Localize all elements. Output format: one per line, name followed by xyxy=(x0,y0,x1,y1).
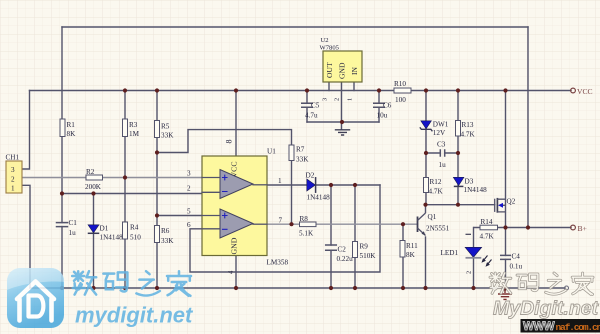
wire Q1 collector lead xyxy=(425,205,427,213)
svg-text:DW1: DW1 xyxy=(433,121,449,129)
svg-text:R6: R6 xyxy=(161,227,170,235)
terminal B+ xyxy=(571,224,587,233)
resistor R8 xyxy=(299,215,316,238)
wire op-amp pin1 output with D2 xyxy=(267,184,380,186)
svg-text:2: 2 xyxy=(11,176,15,184)
svg-text:33K: 33K xyxy=(161,237,174,245)
svg-text:GND: GND xyxy=(230,237,239,254)
svg-text:8K: 8K xyxy=(406,251,416,259)
pin number 2 rotated W7805 xyxy=(334,98,341,101)
svg-text:1: 1 xyxy=(278,177,282,185)
svg-text:C4: C4 xyxy=(512,253,521,261)
capacitor C1 xyxy=(57,219,78,237)
wire C3 links xyxy=(426,152,458,154)
svg-text:WWW: WWW xyxy=(523,321,555,333)
wire DW1 column xyxy=(425,91,427,154)
svg-text:10u: 10u xyxy=(377,112,388,120)
svg-text:2N5551: 2N5551 xyxy=(426,225,450,233)
pin number 3 rotated W7805 xyxy=(322,98,329,101)
pin number 1 rotated W7805 xyxy=(347,98,354,101)
junction dots B+ net xyxy=(503,225,530,229)
svg-text:U2: U2 xyxy=(321,37,329,44)
junction dots C3 net xyxy=(424,151,460,155)
wire top rail xyxy=(62,26,528,28)
wire LED1 column xyxy=(473,228,475,289)
svg-text:4.7K: 4.7K xyxy=(461,131,476,139)
wire R5 R6 column xyxy=(156,91,158,289)
pin number 2 xyxy=(187,185,191,193)
wire battery drop from top rail to B+ xyxy=(527,27,529,228)
svg-text:1: 1 xyxy=(347,98,354,101)
svg-text:R12: R12 xyxy=(430,178,442,186)
pin number 1 xyxy=(278,177,282,185)
ground symbol bottom right xyxy=(498,289,512,300)
resistor R7 xyxy=(289,145,309,164)
svg-text:1N4148: 1N4148 xyxy=(100,234,124,242)
svg-text:C6: C6 xyxy=(383,102,392,110)
op-amp U1 LM358 body xyxy=(202,148,288,267)
svg-text:1u: 1u xyxy=(439,161,447,169)
svg-text:R11: R11 xyxy=(406,242,418,250)
wire C2 column xyxy=(330,185,332,288)
wire VCC rail xyxy=(30,90,572,92)
svg-text:8K: 8K xyxy=(67,130,77,138)
svg-text:GND: GND xyxy=(338,62,347,79)
junction dot R2 node xyxy=(123,175,127,179)
wire C1 lower lead to ground rail xyxy=(61,227,63,288)
wire CH1 pin1 to ground rail xyxy=(22,185,30,288)
capacitor C6 xyxy=(373,102,392,120)
wire R9 column xyxy=(354,185,356,288)
svg-text:D2: D2 xyxy=(306,172,315,180)
svg-text:3: 3 xyxy=(11,166,15,174)
svg-text:2: 2 xyxy=(334,98,341,101)
svg-text:0.22u: 0.22u xyxy=(337,255,354,263)
diode D1 1N4148 xyxy=(88,225,123,242)
svg-text:OUT: OUT xyxy=(325,62,334,78)
resistor R5 xyxy=(155,121,175,140)
svg-text:1M: 1M xyxy=(129,130,140,138)
wire C6 column xyxy=(378,91,380,123)
svg-text:R8: R8 xyxy=(300,215,309,223)
svg-text:3: 3 xyxy=(322,98,329,101)
svg-text:3: 3 xyxy=(187,170,191,178)
svg-text:200K: 200K xyxy=(85,183,102,191)
wire D3 column xyxy=(457,153,459,205)
capacitor C5 xyxy=(301,102,320,120)
junction dots pin2 net xyxy=(60,191,96,195)
svg-text:1N4148: 1N4148 xyxy=(307,194,331,202)
junction dots R5 R6 taps xyxy=(155,150,159,217)
wire C4 column xyxy=(505,228,507,289)
svg-text:2: 2 xyxy=(466,271,473,274)
wire ground rail xyxy=(30,287,565,289)
svg-text:W7805: W7805 xyxy=(320,45,340,52)
wire node A to op-amp pin2 xyxy=(62,193,202,195)
svg-text:5.1K: 5.1K xyxy=(299,230,314,238)
junction dots VCC rail xyxy=(123,88,508,92)
svg-text:5: 5 xyxy=(187,208,191,216)
watermark logo mydigit house xyxy=(7,268,64,328)
svg-text:naf.com.cn: naf.com.cn xyxy=(556,322,600,333)
pin number 8 rotated xyxy=(225,140,234,144)
pin number 3 xyxy=(187,170,191,178)
svg-text:IN: IN xyxy=(350,66,359,75)
watermark text mydigit.net blue xyxy=(75,303,194,328)
capacitor C2 xyxy=(326,245,353,263)
resistor R1 xyxy=(60,119,76,138)
svg-text:D3: D3 xyxy=(465,178,474,186)
svg-text:33K: 33K xyxy=(296,156,309,164)
svg-text:Q1: Q1 xyxy=(428,213,437,221)
wire R11 column xyxy=(402,224,404,288)
svg-text:D1: D1 xyxy=(100,225,109,233)
wire B+ line xyxy=(474,227,571,229)
mosfet Q2 xyxy=(495,198,516,213)
op-amp A section triangle xyxy=(202,170,267,199)
svg-text:1: 1 xyxy=(11,185,15,193)
pin number 6 xyxy=(187,221,191,229)
transistor Q1 2N5551 xyxy=(418,213,450,236)
wire left drop to CH1 pin3 xyxy=(22,91,30,170)
wire D1 column xyxy=(93,194,95,289)
junction dot pin7 net xyxy=(289,222,293,226)
svg-text:100: 100 xyxy=(395,96,406,104)
wire R5 tap to R7 top xyxy=(157,130,292,153)
wire C5 column xyxy=(306,91,308,123)
connector CH1 xyxy=(6,153,23,193)
pin number 4 rotated xyxy=(228,270,235,274)
svg-text:C3: C3 xyxy=(437,141,446,149)
wire W7805 pin 2 ground lead xyxy=(341,82,343,130)
resistor R3 xyxy=(123,119,140,138)
svg-text:1N4148: 1N4148 xyxy=(464,186,488,194)
svg-text:4.7K: 4.7K xyxy=(429,188,444,196)
capacitor C4 xyxy=(500,253,522,271)
pin number 7 xyxy=(279,217,283,225)
svg-text:510: 510 xyxy=(130,234,141,242)
resistor R12 xyxy=(424,178,444,196)
svg-text:R7: R7 xyxy=(296,146,305,154)
svg-text:Q2: Q2 xyxy=(507,198,516,206)
svg-text:R5: R5 xyxy=(161,123,170,131)
svg-text:R1: R1 xyxy=(67,121,76,129)
resistor R4 xyxy=(123,222,142,242)
wire R1 column from top rail down to node A xyxy=(61,27,63,223)
svg-text:R3: R3 xyxy=(129,121,138,129)
junction dot C5 ground xyxy=(340,120,344,124)
resistor R9 xyxy=(353,242,377,261)
svg-text:4.7K: 4.7K xyxy=(480,233,495,241)
svg-text:R9: R9 xyxy=(360,243,369,251)
wire R4 column xyxy=(124,178,126,289)
svg-text:VCC: VCC xyxy=(577,87,593,96)
svg-text:0.1u: 0.1u xyxy=(510,263,523,271)
svg-text:C2: C2 xyxy=(338,246,347,254)
svg-text:mydigit.net: mydigit.net xyxy=(75,303,194,328)
pin number 5 xyxy=(187,208,191,216)
svg-text:C5: C5 xyxy=(311,102,320,110)
resistor R6 xyxy=(155,226,175,246)
op-amp B section triangle xyxy=(202,209,267,238)
svg-text:1u: 1u xyxy=(69,229,77,237)
resistor R11 xyxy=(400,241,418,260)
svg-text:R2: R2 xyxy=(86,168,95,176)
capacitor C3 xyxy=(437,141,446,170)
svg-text:R14: R14 xyxy=(481,218,493,226)
resistor R13 xyxy=(456,121,476,139)
wire R6 tap to op-amp pin5 xyxy=(157,215,202,217)
junction dot Q1 base xyxy=(401,222,405,226)
zener diode DW1 12V xyxy=(420,121,449,138)
wire R13 column xyxy=(457,91,459,154)
led LED1 xyxy=(441,247,492,274)
wire R12 column xyxy=(425,153,427,205)
minus mark near LED1 xyxy=(466,233,472,235)
svg-text:R10: R10 xyxy=(394,80,406,88)
svg-text:R13: R13 xyxy=(462,121,474,129)
svg-text:MyDigit.net: MyDigit.net xyxy=(493,298,600,320)
junction dots gate net xyxy=(423,203,460,207)
svg-text:R4: R4 xyxy=(130,224,139,232)
svg-text:6: 6 xyxy=(187,221,191,229)
watermark text shuma zhijia outlined xyxy=(490,273,593,294)
wire W7805 pin 1 lead xyxy=(353,82,355,91)
svg-text:CH1: CH1 xyxy=(6,153,20,161)
svg-text:LM358: LM358 xyxy=(267,259,289,267)
wire W7805 pin 3 lead xyxy=(328,82,330,91)
svg-text:LED1: LED1 xyxy=(441,249,459,257)
terminal VCC xyxy=(571,87,593,96)
wire C5 C6 ground link xyxy=(307,121,379,123)
watermark text MyDigit.net outlined xyxy=(493,298,600,320)
svg-text:7: 7 xyxy=(279,217,283,225)
wire op-amp pin6 feedback loop xyxy=(190,185,380,272)
watermark banner www.naf.com.cn xyxy=(521,319,600,333)
wire R7 column down to pin7 net xyxy=(291,145,293,224)
wire op-amp pin8 supply xyxy=(235,91,237,157)
wire R3 column xyxy=(124,91,126,178)
svg-text:8: 8 xyxy=(225,140,234,144)
wire op-amp pin4 to ground rail xyxy=(235,256,237,289)
resistor R2 xyxy=(85,168,103,191)
wire Q1 emitter to ground rail xyxy=(425,237,427,288)
svg-text:12V: 12V xyxy=(433,129,446,137)
svg-text:B+: B+ xyxy=(578,224,587,233)
svg-text:2: 2 xyxy=(187,185,191,193)
svg-text:33K: 33K xyxy=(161,132,174,140)
wire op-amp pin7 to Q1 base through R8 xyxy=(267,223,418,225)
diode D2 1N4148 xyxy=(306,172,331,202)
svg-text:U1: U1 xyxy=(267,148,276,156)
terminal battery minus xyxy=(565,286,569,290)
resistor R14 xyxy=(480,218,498,241)
resistor R10 xyxy=(394,80,411,104)
ground symbol under W7805 xyxy=(335,130,350,135)
wire Q2 gate line xyxy=(426,204,495,206)
svg-text:C1: C1 xyxy=(69,219,78,227)
svg-text:510K: 510K xyxy=(360,252,377,260)
regulator U2 W7805 xyxy=(320,37,363,82)
junction dots ground rail xyxy=(60,286,507,291)
svg-text:4.7u: 4.7u xyxy=(305,112,318,120)
wire Q2 drain source column xyxy=(505,91,507,228)
watermark text shuma zhijia blue xyxy=(72,271,191,296)
diode D3 1N4148 xyxy=(453,177,487,194)
svg-text:4: 4 xyxy=(228,270,235,274)
junction dots D2 net xyxy=(329,183,357,187)
wire CH1 pin2 to op-amp pin3 through R2 xyxy=(22,177,202,179)
